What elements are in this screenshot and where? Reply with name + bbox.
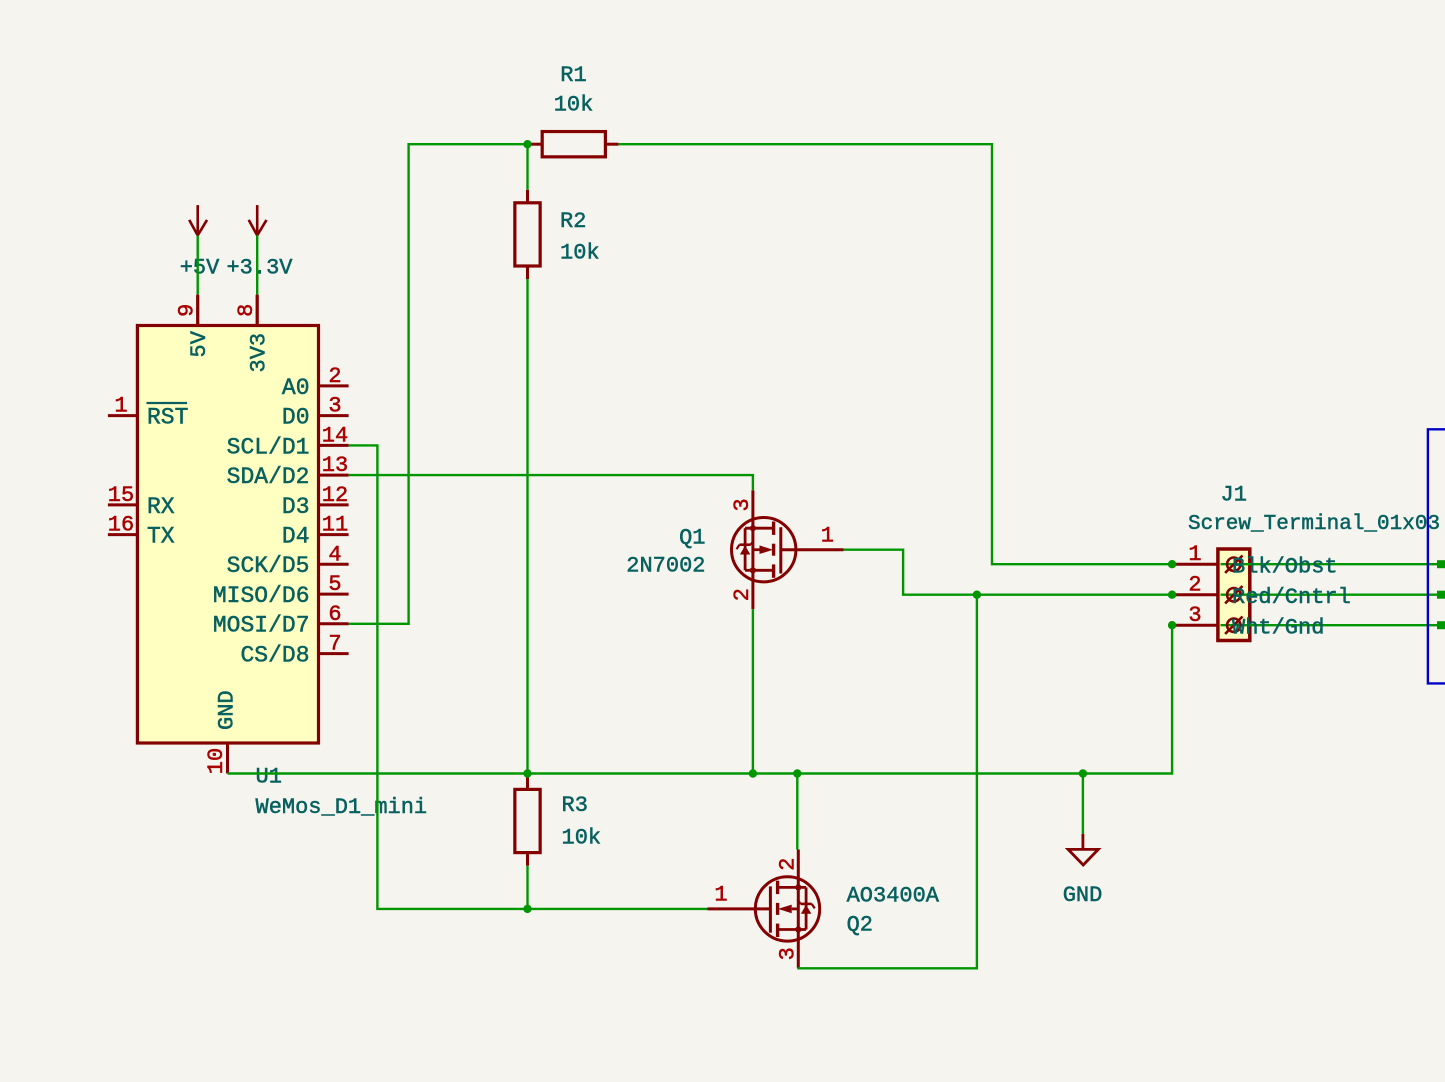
svg-text:D4: D4 bbox=[282, 524, 310, 550]
svg-text:RX: RX bbox=[147, 494, 175, 520]
sheet pin row 2 bbox=[1437, 591, 1445, 599]
svg-text:Screw_Terminal_01x03: Screw_Terminal_01x03 bbox=[1188, 513, 1440, 536]
U1 reference designator bbox=[256, 765, 282, 790]
svg-text:D0: D0 bbox=[282, 405, 310, 431]
Q2 value AO3400A bbox=[847, 884, 940, 909]
svg-text:R2: R2 bbox=[560, 209, 586, 234]
svg-text:8: 8 bbox=[234, 304, 259, 317]
svg-text:11: 11 bbox=[322, 513, 348, 538]
power symbol +3.3V bbox=[226, 205, 293, 280]
junction Q2 pin2 / GND rail bbox=[793, 769, 801, 777]
wire R3 top stub bbox=[526, 774, 528, 777]
svg-text:SCL/D1: SCL/D1 bbox=[227, 434, 310, 460]
svg-text:2N7002: 2N7002 bbox=[626, 554, 705, 579]
J1 reference bbox=[1221, 483, 1247, 508]
Q1 pin 2 number bbox=[730, 588, 755, 601]
svg-text:16: 16 bbox=[108, 513, 134, 538]
net label Blk/Obst bbox=[1232, 555, 1338, 580]
junction J1 pin3 bbox=[1168, 621, 1176, 629]
svg-text:14: 14 bbox=[322, 423, 348, 448]
svg-text:10k: 10k bbox=[562, 826, 602, 851]
wire R2 bottom to GND rail bbox=[526, 279, 528, 774]
svg-text:MISO/D6: MISO/D6 bbox=[213, 583, 310, 609]
J1 screw symbol pin 1 bbox=[1225, 556, 1242, 573]
svg-text:AO3400A: AO3400A bbox=[847, 884, 940, 909]
U1 pin 14 SCL/D1 bbox=[227, 423, 349, 460]
U1 pin 12 D3 bbox=[282, 483, 349, 520]
U1 pin 15 RX bbox=[108, 483, 175, 520]
U1 pin 2 A0 bbox=[282, 364, 349, 401]
wire Q1 pin 2 to GND rail bbox=[752, 609, 754, 773]
svg-text:Red/Cntrl: Red/Cntrl bbox=[1232, 585, 1351, 610]
wire SCL/D1 to Q2 gate bbox=[349, 445, 708, 909]
wire R1 right to J1 pin 1 bbox=[618, 144, 1172, 564]
svg-text:3: 3 bbox=[730, 498, 755, 511]
hierarchical sheet border bbox=[1428, 429, 1445, 683]
svg-text:MOSI/D7: MOSI/D7 bbox=[213, 613, 310, 639]
svg-text:D3: D3 bbox=[282, 494, 310, 520]
svg-text:A0: A0 bbox=[282, 375, 310, 401]
junction node A bbox=[973, 591, 981, 599]
R3 value 10k bbox=[562, 826, 602, 851]
U1 pin 16 TX bbox=[108, 513, 175, 550]
U1 value WeMos_D1_mini bbox=[256, 795, 428, 820]
wire R2 top to R1 junction bbox=[526, 144, 528, 190]
R2 reference bbox=[560, 209, 586, 234]
Q1 value 2N7002 bbox=[626, 554, 705, 579]
junction Q1 pin2 / GND rail bbox=[749, 769, 757, 777]
resistor R2 10k (vertical) bbox=[515, 190, 540, 279]
R3 reference bbox=[562, 793, 588, 818]
R2 value 10k bbox=[560, 241, 600, 266]
R1 value 10k bbox=[554, 93, 594, 118]
svg-text:12: 12 bbox=[322, 483, 348, 508]
junction J1 pin2 bbox=[1168, 591, 1176, 599]
svg-text:+3.3V: +3.3V bbox=[226, 256, 293, 281]
power symbol +5V bbox=[180, 205, 220, 280]
svg-text:Wht/Gnd: Wht/Gnd bbox=[1232, 616, 1324, 641]
junction GND symbol / rail bbox=[1079, 769, 1087, 777]
svg-text:2: 2 bbox=[776, 857, 801, 870]
U1 pin 6 MOSI/D7 bbox=[213, 602, 349, 639]
wire R3 bottom to gate wire bbox=[526, 866, 528, 909]
R1 reference bbox=[560, 63, 586, 88]
sheet pin row 3 bbox=[1437, 621, 1445, 629]
svg-text:3: 3 bbox=[776, 947, 801, 960]
connector J1 body bbox=[1218, 549, 1250, 641]
svg-text:R1: R1 bbox=[560, 63, 586, 88]
Q2 pin 2 number bbox=[776, 857, 801, 870]
wire GND symbol drop bbox=[1082, 774, 1084, 834]
svg-text:J1: J1 bbox=[1221, 483, 1247, 508]
Q2 pin 3 number bbox=[776, 947, 801, 960]
svg-text:4: 4 bbox=[328, 542, 341, 567]
J1 pin 3 bbox=[1172, 603, 1218, 628]
svg-text:10k: 10k bbox=[554, 93, 594, 118]
Q2 pin 1 number bbox=[714, 883, 727, 908]
svg-text:+5V: +5V bbox=[180, 256, 220, 281]
U1 pin 9 5V (top) bbox=[174, 295, 212, 357]
svg-text:1: 1 bbox=[821, 524, 834, 549]
svg-text:1: 1 bbox=[1188, 542, 1201, 567]
svg-text:6: 6 bbox=[328, 602, 341, 627]
svg-text:GND: GND bbox=[1063, 883, 1103, 908]
J1 screw symbol pin 2 bbox=[1225, 586, 1242, 603]
wire +3.3V to pin 8 bbox=[256, 235, 258, 324]
svg-text:9: 9 bbox=[174, 304, 199, 317]
J1 pin 2 bbox=[1172, 572, 1218, 597]
svg-text:R3: R3 bbox=[562, 793, 588, 818]
svg-text:Blk/Obst: Blk/Obst bbox=[1232, 555, 1338, 580]
svg-text:10: 10 bbox=[204, 748, 229, 774]
svg-text:2: 2 bbox=[1188, 572, 1201, 597]
net label Wht/Gnd bbox=[1232, 616, 1324, 641]
IC U1 WeMos_D1_mini body bbox=[137, 326, 318, 744]
junction R3 / gate wire bbox=[523, 905, 531, 913]
wire J1 pin 2 to sheet bbox=[1221, 594, 1438, 596]
junction J1 pin1 bbox=[1168, 560, 1176, 568]
wire node A vertical to Q2 pin 3 bbox=[797, 595, 977, 969]
U1 pin 5 MISO/D6 bbox=[213, 572, 349, 609]
U1 pin 8 3V3 (top) bbox=[234, 295, 272, 372]
svg-text:2: 2 bbox=[328, 364, 341, 389]
svg-text:5: 5 bbox=[328, 572, 341, 597]
transistor Q1 2N7002 (N-MOSFET) bbox=[732, 490, 844, 609]
svg-text:3: 3 bbox=[328, 394, 341, 419]
U1 pin 13 SDA/D2 bbox=[227, 453, 349, 490]
wire R1 left to MOSI/D7 bbox=[349, 144, 529, 624]
wire J1 pin 1 to sheet bbox=[1221, 563, 1438, 565]
U1 pin 11 D4 bbox=[282, 513, 349, 550]
svg-text:15: 15 bbox=[108, 483, 134, 508]
svg-text:SDA/D2: SDA/D2 bbox=[227, 464, 310, 490]
wire Q1 gate to J1 pin 2 bbox=[844, 550, 1172, 595]
net label Red/Cntrl bbox=[1232, 585, 1351, 610]
wire Q2 pin 2 to GND rail bbox=[796, 774, 798, 850]
J1 pin 1 bbox=[1172, 542, 1218, 567]
U1 pin 10 GND (bottom) bbox=[204, 690, 240, 774]
svg-text:5V: 5V bbox=[187, 330, 212, 357]
svg-text:WeMos_D1_mini: WeMos_D1_mini bbox=[256, 795, 428, 820]
svg-text:GND: GND bbox=[214, 690, 239, 730]
wire J1 pin 3 to sheet bbox=[1221, 624, 1438, 626]
J1 value Screw_Terminal_01x03 bbox=[1188, 513, 1440, 536]
svg-text:2: 2 bbox=[730, 588, 755, 601]
svg-text:10k: 10k bbox=[560, 241, 600, 266]
Q1 pin 3 number bbox=[730, 498, 755, 511]
junction R2/R3/GND rail bbox=[523, 769, 531, 777]
svg-text:U1: U1 bbox=[256, 765, 282, 790]
svg-text:SCK/D5: SCK/D5 bbox=[227, 553, 310, 579]
svg-text:3: 3 bbox=[1188, 603, 1201, 628]
svg-text:Q1: Q1 bbox=[679, 526, 705, 551]
resistor R1 10k (horizontal) bbox=[529, 132, 618, 157]
svg-text:1: 1 bbox=[714, 883, 727, 908]
U1 pin 4 SCK/D5 bbox=[227, 542, 349, 579]
junction R1/R2 bbox=[523, 140, 531, 148]
Q2 reference bbox=[847, 913, 873, 938]
Q1 reference bbox=[679, 526, 705, 551]
svg-text:Q2: Q2 bbox=[847, 913, 873, 938]
svg-text:7: 7 bbox=[328, 632, 341, 657]
svg-text:3V3: 3V3 bbox=[247, 333, 272, 373]
ground symbol GND bbox=[1063, 834, 1103, 908]
wire GND rail bbox=[228, 625, 1173, 773]
svg-text:TX: TX bbox=[147, 524, 175, 550]
U1 pin 3 D0 bbox=[282, 394, 349, 431]
svg-text:CS/D8: CS/D8 bbox=[240, 643, 309, 669]
wire +5V to pin 9 bbox=[196, 235, 198, 324]
wire SDA/D2 to Q1 pin 3 bbox=[349, 475, 753, 490]
svg-text:13: 13 bbox=[322, 453, 348, 478]
svg-text:RST: RST bbox=[147, 405, 188, 431]
U1 pin 1 RST bbox=[108, 394, 189, 431]
J1 screw symbol pin 3 bbox=[1225, 617, 1242, 634]
transistor Q2 AO3400A (N-MOSFET) bbox=[708, 850, 820, 969]
resistor R3 10k (vertical) bbox=[515, 776, 540, 865]
sheet pin row 1 bbox=[1437, 560, 1445, 568]
U1 pin 7 CS/D8 bbox=[240, 632, 348, 669]
Q1 pin 1 number bbox=[821, 524, 834, 549]
svg-text:1: 1 bbox=[114, 394, 127, 419]
